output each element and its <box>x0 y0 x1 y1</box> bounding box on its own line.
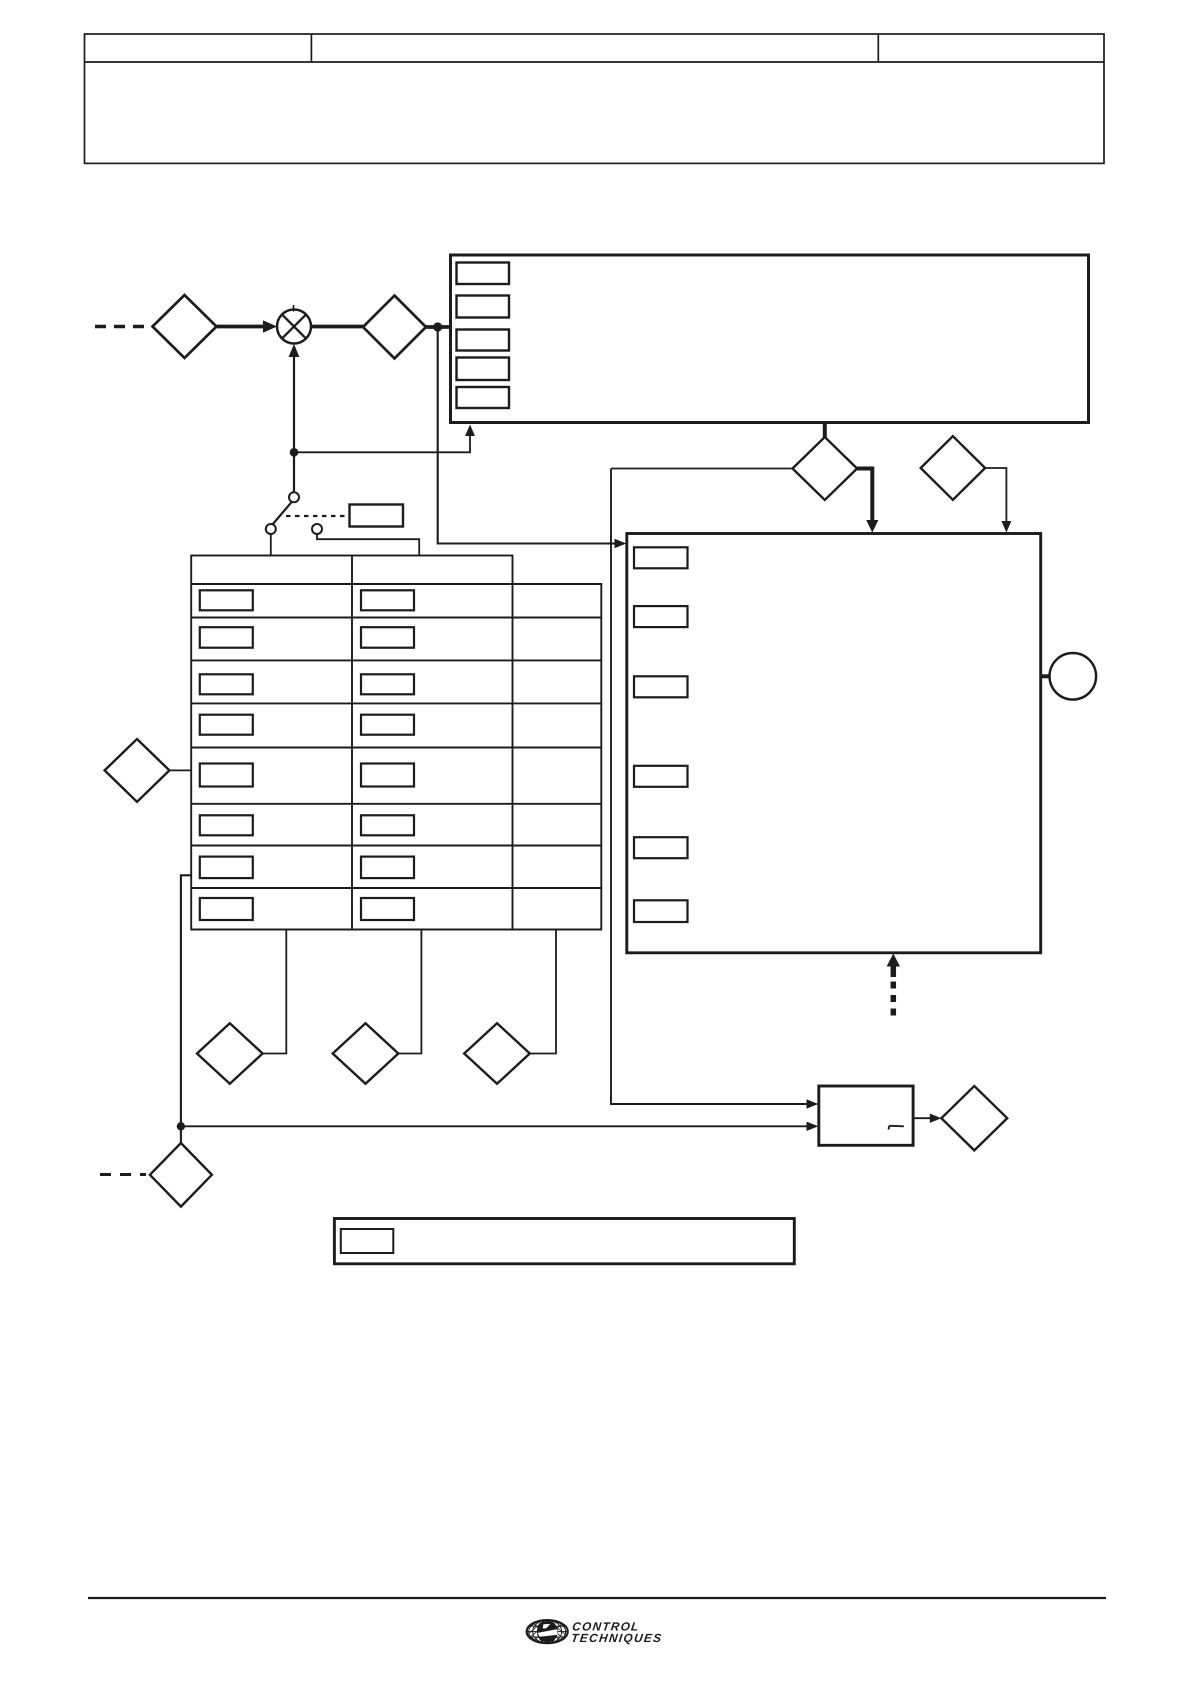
diamond P1 (input reference) <box>153 295 217 358</box>
logo wordmark <box>570 1620 663 1645</box>
wire table col1 down to diamond B1 <box>263 930 287 1054</box>
switch left contact <box>266 524 276 534</box>
legend key rect <box>341 1229 394 1253</box>
param slot 1.2 <box>457 296 510 318</box>
table body frame <box>191 584 601 930</box>
diamond P6 bottom left <box>150 1143 212 1207</box>
switch SW1 top contact <box>289 492 299 502</box>
diamond P2 <box>363 296 426 359</box>
diamond P3 <box>793 437 858 500</box>
wire ramp box to diamond P7 <box>913 1117 930 1119</box>
logo Control Techniques <box>521 1613 663 1649</box>
param slot 1.5 <box>457 387 510 408</box>
wire thick arrow into multiplier <box>217 325 265 329</box>
footer rule <box>88 1597 1106 1599</box>
junction node C <box>177 1122 185 1130</box>
diamond P5 left of table <box>105 739 170 802</box>
multiplier circle X1 <box>277 310 311 344</box>
header cell divider 2 <box>877 34 879 62</box>
wire dotted to select param <box>286 515 345 517</box>
svg-text:TECHNIQUES: TECHNIQUES <box>570 1631 663 1645</box>
param slot 1.3 <box>457 330 510 351</box>
wire node C to ramp box <box>181 1125 807 1127</box>
param slot 2.5 <box>634 837 688 858</box>
diamond P7 <box>941 1086 1007 1150</box>
table param rects col1 <box>200 590 414 920</box>
param slot 1.4 <box>457 358 510 381</box>
wire diamond P3 left to bus <box>611 468 793 470</box>
switch arm <box>273 502 292 525</box>
param box select <box>350 505 404 527</box>
ramp glyph <box>889 1126 904 1130</box>
table param rects col2 <box>361 590 414 610</box>
tick above multiplier <box>293 305 295 312</box>
wire table row7 to bottom bus <box>181 875 191 1143</box>
globe core <box>537 1621 558 1642</box>
diamond B3 <box>464 1023 530 1084</box>
header cell divider 1 <box>310 34 312 62</box>
param slot 2.1 <box>634 547 688 568</box>
wire dashed input left <box>95 325 153 329</box>
legend box <box>334 1219 794 1264</box>
ramp box U1 <box>819 1086 913 1145</box>
wire bus x611 down to ramp box <box>611 469 807 1105</box>
wire dashed arrow into box2 bottom <box>891 977 897 1016</box>
box1 (menu block) <box>451 255 1089 423</box>
wire node B to box1 bottom arrow <box>294 429 470 452</box>
header row divider <box>85 61 1105 63</box>
diamond P4 <box>921 436 985 500</box>
wire table col3 down to diamond B3 <box>530 930 556 1054</box>
junction node B <box>290 448 299 457</box>
wire node A down <box>438 327 615 544</box>
wire stub to motor circle <box>1041 674 1050 678</box>
wire table col2 down to diamond B2 <box>398 930 421 1054</box>
table header <box>191 556 512 585</box>
table col dividers <box>351 584 353 930</box>
wire box1 bottom stub to diamond P3 <box>823 423 827 438</box>
box2 (control block) <box>627 534 1041 953</box>
wire diamond P3 thick to box2 top <box>857 469 872 523</box>
param slot 2.2 <box>634 606 688 627</box>
param slot 2.4 <box>634 766 688 787</box>
param slot 2.6 <box>634 900 688 922</box>
wire diamond P4 to box2 top <box>985 468 1006 524</box>
table row lines <box>191 583 601 585</box>
wire multiplier feedback vertical <box>293 357 295 493</box>
wire right contact to table <box>317 534 419 556</box>
param slot 2.3 <box>634 676 688 697</box>
wire multiplier to diamond P2 <box>311 325 363 329</box>
header table outer <box>85 34 1105 163</box>
switch right contact <box>312 524 322 534</box>
wire diamond P2 to box1 <box>426 325 451 329</box>
param slot 1.1 <box>457 263 510 285</box>
wire left contact to table <box>270 534 272 556</box>
wire diamond P5 to table <box>169 769 191 771</box>
table outer <box>191 556 601 930</box>
diamond B2 <box>333 1023 399 1084</box>
diamond B1 <box>197 1023 263 1084</box>
junction node A <box>433 322 442 331</box>
wire dashed bottom left <box>100 1173 146 1176</box>
motor circle M1 <box>1050 653 1097 700</box>
